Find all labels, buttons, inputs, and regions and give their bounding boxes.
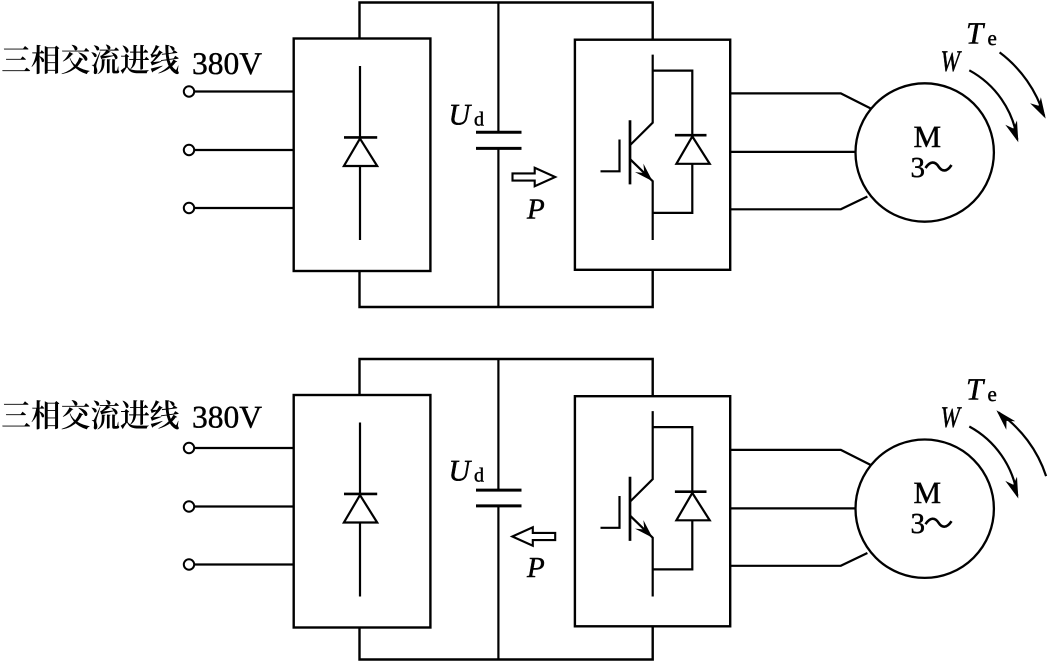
inverter box (bottom): [575, 396, 730, 626]
wire: inverter output phase W (top): [730, 197, 867, 210]
terminal L3 (top): [184, 203, 194, 213]
motor M 3~ (bottom): [856, 440, 994, 578]
IGBT V (top): [601, 55, 653, 240]
svg-text:U: U: [449, 455, 473, 488]
svg-text:U: U: [449, 99, 473, 132]
svg-text:P: P: [526, 194, 545, 226]
speed arrow W (bottom): [969, 427, 1017, 496]
svg-text:e: e: [988, 26, 997, 50]
svg-text:e: e: [988, 382, 997, 406]
terminal L3 (bottom): [184, 559, 194, 569]
svg-text:3: 3: [911, 508, 926, 540]
torque arrow Te (bottom): [998, 412, 1046, 476]
svg-text:W: W: [941, 401, 963, 434]
svg-text:T: T: [966, 372, 986, 407]
terminal L1 (top): [184, 86, 194, 96]
rectifier bridge UR box (top): [294, 39, 431, 272]
svg-text:P: P: [526, 552, 545, 584]
svg-text:d: d: [474, 109, 484, 131]
svg-text:3: 3: [911, 152, 926, 184]
torque arrow Te (top): [1000, 52, 1045, 116]
wire: DC bus positive (top) (top): [360, 3, 653, 40]
svg-text:T: T: [966, 16, 986, 51]
power flow block arrow (top): [513, 168, 556, 186]
IGBT emitter arrowhead (top): [635, 164, 653, 182]
terminal L2 (top): [184, 145, 194, 155]
wire: L1 input to rectifier (top): [194, 90, 294, 92]
svg-text:380V: 380V: [192, 46, 262, 81]
svg-text:M: M: [914, 475, 942, 510]
rectifier diode VD (bottom): [344, 423, 377, 597]
wire: L1 input to rectifier (bottom): [194, 447, 294, 449]
wire: L3 input to rectifier (bottom): [194, 563, 294, 565]
DC-link capacitor C (top): [476, 3, 522, 308]
wire: inverter output phase U (bottom): [730, 450, 871, 465]
wire: inverter output phase U (top): [730, 93, 871, 108]
power flow block arrow (bottom): [512, 527, 555, 545]
wire: inverter output phase W (bottom): [730, 553, 867, 566]
wire: DC bus negative (bottom) (bottom): [360, 626, 653, 659]
motor M 3~ (top): [856, 83, 994, 221]
svg-text:d: d: [474, 465, 484, 487]
svg-text:380V: 380V: [192, 400, 262, 435]
freewheel diode VD (bottom): [653, 427, 710, 569]
IGBT emitter arrowhead (bottom): [635, 520, 653, 538]
wire: inverter output phase V (top): [730, 151, 855, 153]
wire: L3 input to rectifier (top): [194, 207, 294, 209]
wire: inverter output phase V (bottom): [730, 507, 855, 509]
freewheel diode VD (top): [653, 71, 710, 213]
IGBT V (bottom): [601, 411, 653, 596]
wire: DC bus negative (bottom) (top): [360, 270, 653, 307]
wire: L2 input to rectifier (top): [194, 149, 294, 151]
svg-text:W: W: [941, 45, 963, 78]
wire: DC bus positive (top) (bottom): [360, 359, 653, 396]
terminal L1 (bottom): [184, 443, 194, 453]
speed arrow W (top): [969, 70, 1017, 139]
wire: L2 input to rectifier (bottom): [194, 505, 294, 507]
svg-text:M: M: [914, 119, 942, 154]
label: three-phase AC input "三相交流进线 380V" (bottom): [2, 400, 262, 435]
inverter box (top): [575, 40, 730, 270]
rectifier bridge UR box (bottom): [294, 395, 431, 628]
DC-link capacitor C (bottom): [476, 359, 522, 660]
rectifier diode VD (top): [344, 66, 377, 240]
label: three-phase AC input "三相交流进线 380V" (top): [2, 45, 262, 81]
terminal L2 (bottom): [184, 501, 194, 511]
